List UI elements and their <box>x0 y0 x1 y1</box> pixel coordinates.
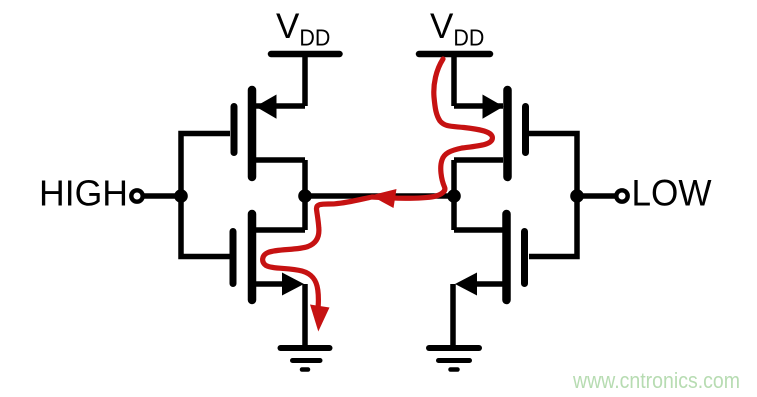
node C (right inverter output) <box>447 189 461 203</box>
current arrow into ground (pointing down) <box>310 305 330 332</box>
ground GND right <box>429 348 479 370</box>
terminal LOW (open circle) <box>616 190 627 201</box>
supply VDD left rail <box>271 51 340 58</box>
svg-text:LOW: LOW <box>632 173 712 214</box>
transistor Q3 (right PMOS) <box>454 90 526 196</box>
wire node D to Q4 gate <box>529 196 577 257</box>
terminal HIGH (open circle) <box>131 190 142 201</box>
svg-text:www.cntronics.com: www.cntronics.com <box>572 368 740 393</box>
transistor Q1 (left PMOS) <box>234 90 305 196</box>
node A (left input junction) <box>174 189 188 203</box>
svg-text:VDD: VDD <box>276 7 330 51</box>
wire node A to Q2 gate <box>181 196 230 257</box>
svg-text:HIGH: HIGH <box>39 173 128 214</box>
wire VDD right to Q3 source <box>451 54 457 106</box>
ground GND left <box>281 348 330 370</box>
node D (right input junction) <box>570 189 584 203</box>
wire node D to Q3 gate <box>529 134 577 197</box>
svg-text:VDD: VDD <box>430 7 484 51</box>
node B (left inverter output) <box>298 189 312 203</box>
transistor Q4 (right NMOS) <box>453 196 525 346</box>
wire HIGH terminal to node A <box>143 193 181 199</box>
wire node A to Q1 gate <box>181 134 230 197</box>
wire VDD left to Q1 source <box>302 54 308 106</box>
current arrow on bus (pointing left) <box>371 189 397 208</box>
supply VDD right rail <box>419 51 490 58</box>
current path (crowbar current from right VDD to left GND) <box>263 59 493 306</box>
transistor Q2 (left NMOS) <box>233 196 305 346</box>
wire shared bus (node B to node C) <box>305 193 454 199</box>
wire node D to LOW terminal <box>577 193 615 199</box>
